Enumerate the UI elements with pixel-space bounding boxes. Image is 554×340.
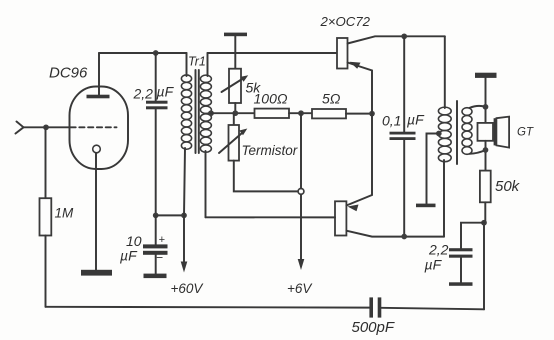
wire tap node line [211, 112, 255, 114]
capacitor 2.2uF right [449, 248, 473, 251]
svg-text:+: + [159, 234, 166, 246]
svg-text:Termistor: Termistor [242, 143, 298, 158]
OT primary loops [438, 107, 451, 162]
wire 10uF to ground [155, 255, 157, 274]
tube grid dashed [71, 126, 117, 128]
svg-text:−: − [156, 251, 163, 265]
resistor 100 ohm [255, 109, 290, 118]
wire to 2.2uF right [461, 223, 484, 249]
node +60V junction [181, 213, 187, 219]
svg-text:DC96: DC96 [49, 65, 88, 82]
OT core [456, 101, 458, 164]
svg-text:500pF: 500pF [352, 319, 395, 336]
svg-text:µF: µF [120, 248, 138, 264]
tube cathode circle [93, 145, 101, 153]
svg-text:µF: µF [407, 112, 425, 128]
wire 0.1uF top lead [403, 36, 405, 131]
ground under 2.2uF [449, 282, 473, 286]
Tr1 primary top lead [186, 53, 188, 76]
wire secondary top to Q1 base [208, 52, 338, 54]
ground OT tap [416, 204, 436, 208]
ground under 10uF [144, 274, 167, 279]
wire collector rail up to OT [443, 160, 445, 237]
OT center tap [436, 131, 442, 137]
OT secondary top lead [470, 106, 486, 108]
resistor 50k [480, 171, 491, 203]
Tr1 secondary loops [200, 75, 211, 152]
node 10uF junction [153, 213, 159, 219]
svg-text:1M: 1M [55, 206, 75, 221]
svg-text:Tr1: Tr1 [188, 55, 206, 69]
svg-text:2,2: 2,2 [428, 242, 449, 258]
wire ground to 5k [234, 36, 236, 68]
wire 0.1uF bottom lead [403, 140, 405, 237]
ground under tube [81, 270, 112, 276]
wire bottom rail up to 50k node [483, 223, 485, 310]
svg-text:µF: µF [425, 257, 443, 273]
Q1 emitter [348, 63, 373, 114]
node speaker bottom [483, 147, 489, 153]
node Tr1 center tap [208, 110, 214, 116]
Q2 collector [346, 231, 444, 237]
svg-text:0,1: 0,1 [382, 113, 401, 129]
svg-text:5Ω: 5Ω [322, 91, 341, 107]
node 0.1uF bottom [401, 234, 407, 240]
wire bottom rail right [381, 308, 484, 310]
wire input node down to 1M [45, 127, 47, 198]
capacitor 500pF [369, 297, 373, 317]
svg-text:100Ω: 100Ω [254, 91, 288, 107]
wire 2.2uF to ground [460, 258, 462, 283]
wire bottom rail left [46, 306, 370, 309]
svg-text:50k: 50k [495, 178, 521, 195]
wire node down to cap [155, 53, 157, 101]
wire 50k down [484, 202, 486, 222]
speaker GT [478, 123, 494, 141]
svg-text:+6V: +6V [287, 281, 313, 296]
tube DC96 envelope [70, 87, 129, 170]
wire +60V arrow [183, 215, 185, 264]
node 5k/termistor [232, 110, 238, 116]
OT secondary bottom lead [470, 150, 486, 154]
wire ground to speaker [485, 78, 487, 123]
node speaker top [483, 104, 489, 110]
wire 5k to node [234, 103, 236, 113]
node 0.1uF top [401, 33, 407, 39]
capacitor 2.2uF left [146, 101, 168, 104]
potentiometer 5k [229, 69, 241, 103]
resistor 1M [40, 198, 52, 235]
input arrow [16, 122, 24, 134]
svg-text:µF: µF [157, 84, 175, 100]
wire top rail to OT primary [444, 36, 446, 108]
ground top right [475, 73, 497, 78]
wire anode to Tr1 top [99, 52, 187, 54]
svg-text:GT: GT [517, 127, 534, 139]
wire anode up [98, 53, 100, 95]
Tr1 primary bottom lead [184, 148, 185, 215]
capacitor 10uF [143, 244, 168, 248]
wire input to tube [24, 126, 70, 128]
wire termistor bottom [234, 161, 298, 192]
wire speaker bottom [485, 141, 487, 171]
node 50k bottom [481, 220, 487, 226]
svg-text:+60V: +60V [171, 281, 205, 296]
wire 10uF lead [155, 215, 157, 245]
tube anode plate [87, 95, 110, 99]
node emitter rail [369, 111, 375, 117]
svg-text:2,2: 2,2 [133, 86, 154, 102]
Tr1 secondary top lead [207, 53, 209, 76]
Q2 emitter [346, 114, 372, 206]
thermistor Termistor [233, 113, 235, 125]
node ring termistor/+6V [298, 189, 304, 195]
node 2.2uF top [153, 50, 159, 56]
ground above 5k [224, 33, 247, 37]
wire +6V line [300, 113, 302, 188]
node input junction [43, 124, 49, 130]
wire cathode down [95, 153, 97, 270]
capacitor 0.1uF [390, 132, 416, 135]
wire cap down to +60V node [155, 109, 157, 215]
resistor 5 ohm [312, 109, 346, 118]
Q1 collector [348, 36, 445, 43]
OT secondary loops [462, 108, 472, 155]
wire 100ohm to 5ohm [289, 112, 312, 114]
node +6V branch [298, 110, 304, 116]
Tr1 secondary bottom lead [205, 151, 207, 217]
wire 5ohm to emitter rail [346, 113, 372, 115]
svg-text:2×OC72: 2×OC72 [320, 14, 371, 29]
Tr1 core [195, 70, 197, 153]
Q2 base wire [206, 216, 336, 218]
transistor Q2 (lower OC72) [335, 201, 346, 235]
Tr1 primary loops [181, 75, 191, 149]
wire node link [156, 214, 184, 216]
wire 1M to bottom rail [45, 236, 47, 307]
